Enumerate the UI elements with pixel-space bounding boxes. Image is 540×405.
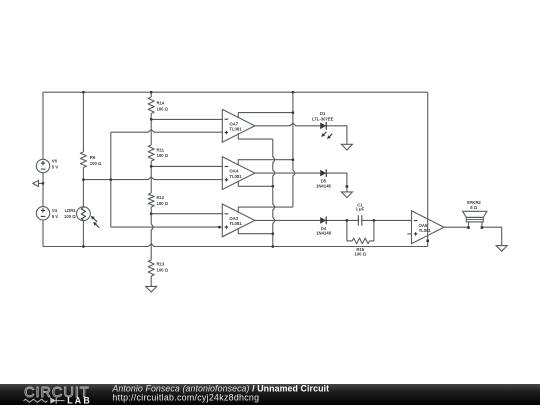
node A R14/R11 (150, 118, 153, 121)
wire node A to R11 (150, 119, 152, 145)
node D4 / C1 / R15 (346, 219, 349, 222)
wire OA7 V+ pin to positive supply column (238, 113, 293, 119)
svg-text:http://circuitlab.com/cyj24kz8: http://circuitlab.com/cyj24kz8dhcng (112, 392, 259, 402)
photoresistor LDR1 (77, 207, 91, 221)
wire plus-input column (110, 132, 112, 227)
wire OA4 output to D5 (255, 172, 320, 174)
svg-text:TL081: TL081 (229, 174, 242, 179)
svg-text:LTL-307EE: LTL-307EE (312, 116, 334, 121)
pin OA6 V- (426, 240, 429, 243)
footer bar (0, 384, 540, 405)
svg-text:LDR1: LDR1 (65, 208, 77, 213)
svg-text:1N4148: 1N4148 (316, 183, 331, 188)
diode D5 (320, 170, 326, 177)
wire R13 to ground (150, 276, 152, 286)
node B R11/R12 (150, 165, 153, 168)
wire top positive rail (43, 91, 428, 93)
resistor R13 (148, 260, 154, 276)
node top rail / R14 column (150, 91, 153, 94)
svg-text:V6: V6 (52, 159, 58, 164)
resistor R11 (148, 145, 154, 161)
node C R12/R13 (150, 212, 153, 215)
node ground tap between V6 and V4 (42, 182, 45, 185)
node OA4 V- (271, 185, 274, 188)
wire positive supply column (293, 92, 295, 207)
LED D1 (320, 123, 326, 130)
wire R12 to node C (150, 207, 152, 214)
diode D4 (320, 217, 326, 224)
wire divider node to LDR1 (82, 180, 84, 207)
wire R11 to node B (150, 161, 152, 166)
node C1 / R15 right (373, 219, 376, 222)
node divider / plus-input column (109, 178, 112, 181)
voltage source V6 (36, 159, 49, 172)
op-amp OA3 (222, 204, 255, 237)
node OA4 V+ (292, 158, 295, 161)
svg-text:R14: R14 (157, 101, 165, 106)
wire to OA3 noninverting input (111, 226, 223, 228)
svg-text:100 Ω: 100 Ω (90, 161, 102, 166)
resistor R14 (148, 97, 154, 114)
voltage source V4 (36, 207, 49, 220)
wire node C to OA3 inverting input (151, 213, 222, 215)
wire D1 cathode to ground (326, 126, 347, 145)
wire left rail upper (top rail to V6) (42, 92, 44, 159)
node OA3 plus input (218, 226, 221, 229)
svg-text:100 Ω: 100 Ω (354, 251, 366, 256)
node negative column / bottom rail (271, 245, 274, 248)
wire to OA7 noninverting input (111, 130, 223, 133)
wire top rail to R14 (150, 92, 152, 97)
svg-text:R13: R13 (157, 262, 165, 267)
pin SPKR2 terminal 1 (467, 226, 470, 229)
ground for SPKR2 (496, 246, 507, 252)
wire OA3 V- pin to negative supply column (238, 228, 272, 234)
node LDR1 / bottom rail (82, 245, 85, 248)
wire R14 to node A (150, 114, 152, 120)
svg-text:1N4148: 1N4148 (316, 231, 331, 236)
wire top rail to R9 (82, 92, 84, 152)
wire C1 right node to OA6 inverting input (362, 219, 412, 221)
svg-text:100 Ω: 100 Ω (157, 268, 169, 273)
svg-text:R12: R12 (157, 195, 165, 200)
wire OA7 output to D1 (255, 123, 320, 126)
node OA3 V- (271, 232, 274, 235)
op-amp OA6 (412, 211, 445, 244)
node top rail / positive supply column (292, 91, 295, 94)
wire negative supply column (273, 139, 275, 246)
svg-text:TL081: TL081 (419, 228, 432, 233)
op-amp OA7 (222, 109, 255, 142)
wire node C down past bottom rail to R13 (151, 214, 153, 260)
wire divider node to OA4 noninverting input (83, 177, 222, 180)
wire OA4 V- pin to negative supply column (238, 181, 272, 187)
wire bottom rail (43, 244, 428, 247)
wire OA6 output to SPKR2 (444, 226, 469, 228)
wire SPKR2 to ground (482, 227, 502, 245)
speaker SPKR2 (463, 211, 487, 217)
resistor R15 (352, 238, 369, 244)
ground for D5 (346, 185, 349, 188)
wire node B to R12 (150, 166, 152, 193)
wire D5 cathode to ground (326, 173, 347, 192)
svg-text:8 Ω: 8 Ω (470, 205, 477, 210)
wire R9 to divider node (82, 168, 84, 180)
resistor R12 (148, 193, 154, 207)
wire V4 to bottom rail (42, 220, 44, 247)
svg-text:TL081: TL081 (229, 127, 242, 132)
wire D4 cathode to C1 left node (326, 219, 358, 221)
node top rail / R9 column (82, 91, 85, 94)
svg-text:R11: R11 (157, 147, 165, 152)
capacitor C1 (357, 215, 359, 225)
svg-text:100 Ω: 100 Ω (64, 214, 76, 219)
node OA7 V+ (292, 111, 295, 114)
svg-text:TL081: TL081 (229, 221, 242, 226)
wire OA7 V- pin to negative supply column (238, 133, 272, 139)
wire V6 to V4 (42, 173, 44, 207)
pin SPKR2 terminal 2 (481, 226, 484, 229)
wire OA6 supply column from top rail through to bottom rail (427, 92, 429, 246)
svg-text:5 V: 5 V (52, 165, 58, 170)
wire OA4 V+ pin to positive supply column (238, 160, 293, 166)
wire LDR1 to bottom rail (82, 221, 84, 247)
svg-text:100 Ω: 100 Ω (157, 106, 169, 111)
ground for D1 (341, 144, 352, 150)
op-amp OA4 (222, 157, 255, 190)
svg-text:1 µF: 1 µF (356, 207, 365, 212)
wire node A to OA7 inverting input (151, 118, 222, 120)
wire node B to OA4 inverting input (151, 165, 222, 167)
svg-text:R9: R9 (90, 155, 96, 160)
wire OA3 output to D4 (255, 219, 320, 221)
wire R15 branch left leg (347, 220, 352, 241)
wire OA6 noninverting input stub (407, 233, 411, 235)
ground below R13 (146, 286, 157, 292)
ground (left-pointing, between V6 and V4) (33, 180, 39, 186)
svg-text:100 Ω: 100 Ω (157, 201, 169, 206)
svg-text:100 Ω: 100 Ω (157, 153, 169, 158)
svg-text:5 V: 5 V (52, 214, 58, 219)
svg-text:LAB: LAB (67, 396, 92, 405)
wire R15 branch right leg (370, 220, 374, 241)
node R9 bottom divider (82, 178, 85, 181)
resistor R9 (80, 152, 86, 168)
wire OA3 V+ pin to positive supply column (238, 207, 293, 213)
svg-text:V4: V4 (52, 208, 58, 213)
